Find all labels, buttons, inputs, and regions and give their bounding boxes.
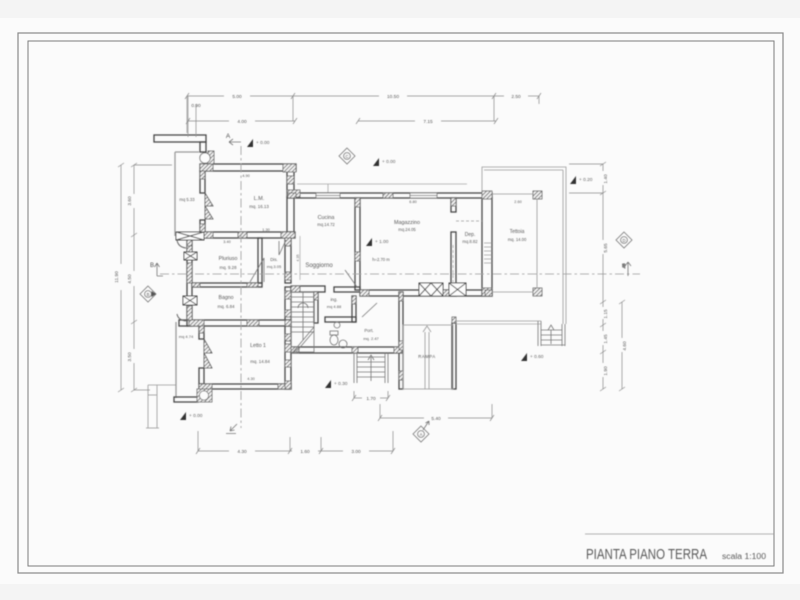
svg-text:A: A bbox=[420, 432, 423, 437]
svg-text:6.80: 6.80 bbox=[409, 200, 416, 204]
svg-text:A: A bbox=[226, 133, 231, 140]
svg-text:mq 5.33: mq 5.33 bbox=[179, 197, 195, 202]
svg-text:D: D bbox=[622, 238, 625, 243]
svg-text:0.90: 0.90 bbox=[191, 103, 201, 109]
svg-text:4.60: 4.60 bbox=[622, 341, 628, 351]
svg-text:C: C bbox=[345, 154, 348, 159]
svg-text:10.50: 10.50 bbox=[387, 94, 399, 100]
svg-text:7.15: 7.15 bbox=[423, 119, 433, 125]
svg-text:5.00: 5.00 bbox=[232, 94, 242, 100]
svg-text:1.30: 1.30 bbox=[262, 228, 269, 232]
svg-text:Dis.: Dis. bbox=[270, 257, 278, 262]
svg-text:.05: .05 bbox=[622, 264, 626, 269]
svg-text:mq. 9.28: mq. 9.28 bbox=[219, 265, 237, 270]
svg-text:Letto 1: Letto 1 bbox=[250, 343, 266, 349]
svg-text:mq. 14.00: mq. 14.00 bbox=[508, 237, 527, 242]
svg-text:1.15: 1.15 bbox=[603, 309, 609, 319]
svg-text:4.30: 4.30 bbox=[247, 377, 254, 381]
svg-text:4.50: 4.50 bbox=[127, 274, 133, 284]
svg-text:Cucina: Cucina bbox=[318, 215, 335, 221]
svg-text:3.50: 3.50 bbox=[127, 352, 133, 362]
svg-text:4.35: 4.35 bbox=[296, 255, 300, 262]
svg-text:Soggiorno: Soggiorno bbox=[305, 263, 333, 269]
svg-text:5.65: 5.65 bbox=[603, 243, 609, 253]
svg-text:1.40: 1.40 bbox=[603, 174, 609, 184]
svg-text:1.70: 1.70 bbox=[366, 396, 376, 402]
svg-text:mq.3.05: mq.3.05 bbox=[267, 264, 282, 269]
svg-text:Port.: Port. bbox=[364, 328, 373, 333]
svg-text:ing.: ing. bbox=[330, 297, 337, 302]
svg-text:mq.8.82: mq.8.82 bbox=[462, 239, 478, 244]
svg-text:PIANTA PIANO TERRA: PIANTA PIANO TERRA bbox=[586, 547, 707, 563]
svg-text:+ 0.00: + 0.00 bbox=[189, 413, 203, 419]
svg-text:1.45: 1.45 bbox=[603, 334, 609, 344]
svg-text:1.90: 1.90 bbox=[603, 366, 609, 376]
svg-text:scala 1:100: scala 1:100 bbox=[722, 552, 767, 561]
svg-text:4.00: 4.00 bbox=[237, 119, 247, 125]
svg-text:2.60: 2.60 bbox=[514, 200, 521, 204]
svg-text:mq. 14.84: mq. 14.84 bbox=[250, 359, 270, 364]
svg-text:mq. 6.84: mq. 6.84 bbox=[217, 304, 235, 309]
svg-text:Tettoia: Tettoia bbox=[510, 229, 525, 235]
svg-text:RAMPA: RAMPA bbox=[418, 354, 436, 359]
svg-text:+ 0.00: + 0.00 bbox=[382, 159, 396, 165]
svg-text:+ 1.00: + 1.00 bbox=[375, 239, 389, 245]
svg-text:Magazzino: Magazzino bbox=[394, 220, 420, 226]
svg-text:+ 0.00: + 0.00 bbox=[256, 140, 270, 146]
svg-text:Bagno: Bagno bbox=[218, 295, 233, 301]
svg-text:3.00: 3.00 bbox=[351, 449, 361, 455]
svg-text:B: B bbox=[147, 292, 150, 297]
svg-text:mq. 2.47: mq. 2.47 bbox=[363, 336, 379, 341]
svg-text:5.40: 5.40 bbox=[431, 416, 441, 422]
svg-text:mq 4.88: mq 4.88 bbox=[327, 304, 342, 309]
svg-text:B: B bbox=[150, 263, 154, 269]
svg-text:4.90: 4.90 bbox=[242, 174, 249, 178]
svg-text:3.60: 3.60 bbox=[127, 196, 133, 206]
svg-text:mq.24.05: mq.24.05 bbox=[398, 227, 416, 232]
svg-text:+ 0.60: + 0.60 bbox=[530, 354, 544, 360]
svg-text:mq. 16.13: mq. 16.13 bbox=[249, 204, 269, 209]
svg-text:3.40: 3.40 bbox=[223, 240, 230, 244]
svg-text:4.30: 4.30 bbox=[237, 449, 247, 455]
svg-text:h=2.70 m: h=2.70 m bbox=[372, 257, 390, 262]
svg-text:2.50: 2.50 bbox=[511, 94, 521, 100]
svg-text:mq 4.74: mq 4.74 bbox=[179, 334, 194, 339]
svg-text:L.M.: L.M. bbox=[254, 196, 264, 202]
svg-text:Dep.: Dep. bbox=[465, 232, 476, 238]
svg-text:Pluriuso: Pluriuso bbox=[219, 256, 238, 262]
svg-text:+ 0.20: + 0.20 bbox=[579, 177, 593, 183]
svg-text:11.90: 11.90 bbox=[114, 271, 120, 283]
svg-text:1.60: 1.60 bbox=[300, 449, 310, 455]
svg-text:mq.14.72: mq.14.72 bbox=[317, 222, 335, 227]
svg-text:+ 0.30: + 0.30 bbox=[334, 381, 348, 387]
